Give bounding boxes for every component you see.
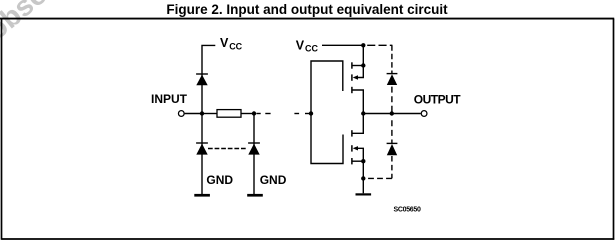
- label GND (right of input stage): [260, 173, 287, 187]
- gate bracket wire (common gate): [311, 61, 343, 164]
- wire input terminal to node A: [185, 113, 202, 115]
- resistor R1: [217, 110, 241, 118]
- svg-text:INPUT: INPUT: [151, 92, 188, 106]
- node A junction dot: [200, 111, 204, 115]
- node B junction dot: [252, 111, 256, 115]
- node Q2 source junction dot: [361, 159, 365, 163]
- svg-text:V: V: [296, 38, 305, 52]
- node VCC junction dot: [361, 43, 365, 47]
- svg-text:GND: GND: [206, 173, 233, 187]
- wire VCC node down to Q1 source: [362, 45, 364, 65]
- label GND (left): [206, 173, 233, 187]
- wire node A down to diode D2 and ground: [201, 114, 203, 195]
- ground symbol (left input): [194, 194, 210, 197]
- svg-text:SC05650: SC05650: [394, 206, 421, 213]
- label SC05650: [394, 206, 421, 213]
- svg-text:OUTPUT: OUTPUT: [414, 92, 462, 106]
- input terminal: [178, 111, 184, 117]
- dashed wire D4 to output node: [391, 87, 393, 114]
- wire resistor to node B: [241, 113, 254, 115]
- wire node A to resistor: [202, 113, 217, 115]
- svg-text:GND: GND: [260, 173, 287, 187]
- diode D3 ground to resistor: [248, 143, 260, 155]
- dashed wire node B toward gate node: [256, 113, 309, 115]
- node gate junction dot: [309, 111, 313, 115]
- node bulk tie junction dot: [361, 176, 365, 180]
- node output-diode junction dot: [390, 111, 394, 115]
- n-channel MOSFET Q2: [352, 114, 363, 165]
- svg-text:Figure 2. Input and output equ: Figure 2. Input and output equivalent ci…: [166, 2, 448, 17]
- output rail wire: [363, 113, 421, 115]
- ground symbol (output stage): [356, 193, 372, 195]
- ground symbol (right of input stage): [247, 194, 263, 197]
- label INPUT: [151, 92, 188, 106]
- p-channel MOSFET Q1: [352, 62, 363, 113]
- diode D5 ground to output: [387, 143, 398, 155]
- svg-text:CC: CC: [305, 43, 318, 53]
- dashed wire D5 to bulk tie node: [366, 156, 392, 178]
- output terminal: [421, 111, 427, 117]
- dashed wire output node to diode D5: [391, 120, 393, 143]
- label VCC (right): [296, 38, 319, 53]
- svg-text:V: V: [220, 36, 229, 50]
- svg-text:CC: CC: [229, 41, 242, 51]
- node output-drain junction dot: [361, 111, 365, 115]
- wire node B down to diode D3 and ground: [253, 114, 255, 195]
- wire VCC rail (right): [322, 44, 363, 46]
- label VCC (left): [220, 36, 243, 51]
- dashed wire VCC node to protection diode D4: [367, 45, 392, 73]
- diode D1 input to VCC: [196, 74, 208, 85]
- svg-text:obsolete: obsolete: [0, 0, 91, 46]
- diode D2 ground to input: [196, 143, 208, 155]
- label OUTPUT: [414, 92, 462, 106]
- node Q1 source junction dot: [361, 63, 365, 67]
- wire VCC corner to input clamp diode (left): [202, 45, 215, 113]
- diode D4 output to VCC: [387, 74, 398, 85]
- dashed wire linking clamp diodes D2 and D3: [208, 148, 246, 150]
- wire Q2 source to ground: [362, 161, 364, 193]
